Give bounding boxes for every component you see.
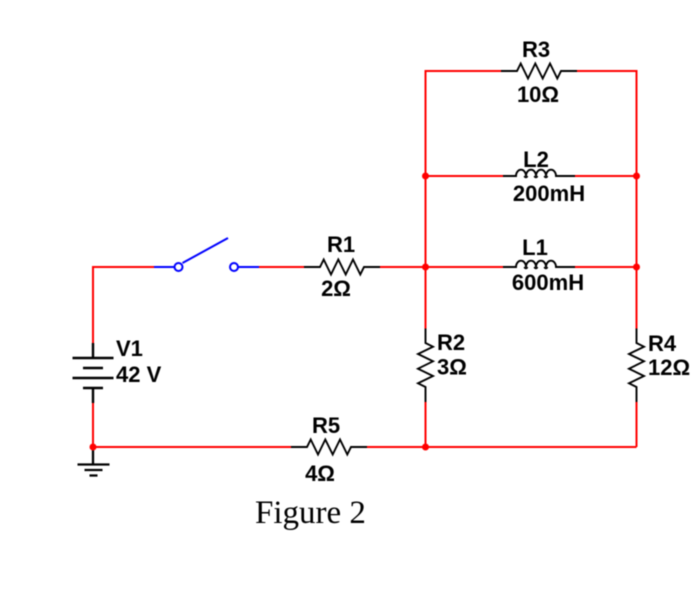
- inductor L2: [503, 170, 575, 178]
- svg-text:L1: L1: [522, 235, 548, 260]
- svg-text:3Ω: 3Ω: [437, 355, 467, 380]
- wire: switch to R1: [259, 266, 304, 268]
- svg-text:R2: R2: [437, 330, 465, 355]
- wire: R2 bottom lead to bottom row: [425, 402, 427, 447]
- wire: R4 bottom lead to bottom row: [636, 402, 638, 447]
- node: bottom left junction at ground: [90, 444, 97, 451]
- switch S1: [154, 238, 259, 271]
- wire: battery minus to bottom node: [92, 403, 94, 447]
- wire: top row left (node to R3): [426, 71, 502, 329]
- wire: bottom row left (node to R5): [93, 446, 291, 448]
- wire: R1 to mid node: [380, 266, 426, 268]
- svg-text:R1: R1: [327, 232, 355, 257]
- wire: L2 row right: [575, 175, 637, 177]
- inductor L1: [503, 261, 575, 269]
- node: main row right junction: [633, 264, 640, 271]
- svg-text:200mH: 200mH: [513, 181, 585, 206]
- svg-text:R5: R5: [312, 413, 340, 438]
- svg-text:2Ω: 2Ω: [321, 276, 351, 301]
- wire: mid node to L1: [426, 266, 504, 268]
- node: L2 right junction: [633, 173, 640, 180]
- resistor R2: [418, 329, 433, 403]
- svg-text:42 V: 42 V: [116, 362, 162, 387]
- svg-text:L2: L2: [523, 147, 549, 172]
- svg-text:Figure 2: Figure 2: [255, 495, 366, 531]
- svg-text:10Ω: 10Ω: [517, 82, 559, 107]
- wire: switch feed from battery top corner: [93, 267, 154, 343]
- node: main row mid junction: [422, 264, 429, 271]
- node: bottom mid junction: [422, 444, 429, 451]
- svg-text:4Ω: 4Ω: [305, 461, 335, 486]
- resistor R3: [501, 64, 577, 79]
- svg-text:R4: R4: [648, 331, 677, 356]
- svg-text:600mH: 600mH: [512, 270, 584, 295]
- wire: bottom row right (R5 to R4 corner): [367, 446, 637, 448]
- svg-text:12Ω: 12Ω: [648, 355, 690, 380]
- wire: L2 row left: [426, 175, 504, 177]
- ground: [78, 447, 110, 476]
- battery V1: [73, 343, 114, 403]
- node: L2 left junction: [422, 173, 429, 180]
- resistor R5: [291, 440, 367, 455]
- svg-text:R3: R3: [522, 37, 550, 62]
- resistor R1: [304, 260, 380, 275]
- wire: L1 to right node: [575, 266, 637, 268]
- resistor R4: [629, 329, 644, 403]
- wire: top row right (R3 to right vertical): [577, 71, 637, 329]
- svg-text:V1: V1: [116, 336, 143, 361]
